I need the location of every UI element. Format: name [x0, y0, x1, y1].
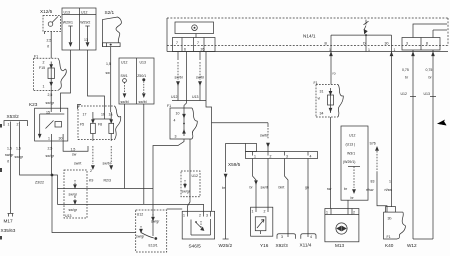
- wire Z50/1 down: [143, 104, 145, 204]
- svg-text:U13: U13: [424, 92, 430, 96]
- svg-text:bl/rt: bl/rt: [279, 186, 285, 190]
- connector X92/3: [277, 234, 296, 239]
- wire U12 chain to W12: [401, 50, 417, 239]
- svg-text:2: 2: [90, 169, 92, 173]
- svg-text:U13: U13: [65, 214, 71, 218]
- bracket X59/5 to W25/2: [226, 144, 246, 173]
- svg-text:2: 2: [17, 123, 19, 127]
- svg-text:K9: K9: [89, 179, 93, 183]
- wire switch to E13/1 net: [153, 139, 184, 236]
- svg-text:U12: U12: [81, 11, 87, 15]
- svg-text:R2/3: R2/3: [104, 179, 111, 183]
- svg-text:1: 1: [326, 211, 328, 215]
- wire pin8 stub: [432, 30, 434, 38]
- wire X59/5 pin2 to Y16: [261, 159, 269, 208]
- svg-text:2: 2: [353, 211, 355, 215]
- svg-text:sw/gr: sw/gr: [69, 208, 78, 212]
- svg-text:sw: sw: [72, 153, 77, 157]
- relay K40: [384, 207, 406, 239]
- svg-text:rt/sw: rt/sw: [385, 188, 393, 192]
- svg-text:0,75: 0,75: [402, 68, 409, 72]
- svg-text:X92/3: X92/3: [276, 243, 289, 248]
- svg-text:1,5: 1,5: [71, 148, 76, 152]
- svg-text:X12/5: X12/5: [40, 9, 53, 14]
- switch S46/5: [182, 211, 214, 239]
- wire X53/2-1 to M17: [10, 126, 12, 213]
- svg-text:sw/gr: sw/gr: [136, 235, 145, 239]
- svg-text:U13: U13: [192, 95, 198, 99]
- svg-text:34: 34: [320, 112, 324, 116]
- svg-text:1: 1: [252, 210, 254, 214]
- svg-text:S2/1: S2/1: [105, 10, 115, 15]
- svg-text:Z3/22: Z3/22: [35, 181, 44, 185]
- svg-text:17: 17: [83, 113, 87, 117]
- svg-text:2,5: 2,5: [47, 39, 52, 43]
- svg-text:31: 31: [320, 90, 324, 94]
- svg-text:1: 1: [389, 180, 391, 184]
- svg-text:rt/sw: rt/sw: [366, 188, 374, 192]
- wire W29/2 to fuse box: [88, 50, 105, 106]
- svg-text:sw: sw: [106, 71, 111, 75]
- wire K23 to Z3/22 junction: [50, 141, 52, 175]
- svg-text:1a: 1a: [109, 113, 113, 117]
- svg-text:U12: U12: [192, 174, 198, 178]
- svg-text:2: 2: [264, 210, 266, 214]
- edge marks: [0, 124, 2, 128]
- svg-text:vi: vi: [318, 97, 321, 101]
- connector X11/4: [301, 234, 316, 239]
- connector X12/5: [43, 16, 61, 35]
- svg-text:X11/4: X11/4: [300, 243, 312, 248]
- svg-text:U13: U13: [140, 61, 146, 65]
- svg-text:26: 26: [201, 48, 205, 52]
- svg-text:30: 30: [59, 137, 63, 141]
- wire F1 to K23: [50, 87, 52, 109]
- wire Z3/22 down to E13/1: [52, 175, 136, 233]
- svg-text:U12: U12: [121, 61, 127, 65]
- svg-text:6: 6: [184, 48, 186, 52]
- svg-text:sw/bl: sw/bl: [139, 100, 147, 104]
- wire pin3 up: [413, 24, 447, 38]
- wire M13 br to W3/1: [347, 200, 349, 208]
- svg-text:(U13 ): (U13 ): [346, 143, 356, 147]
- svg-text:sw/gr: sw/gr: [69, 193, 78, 197]
- coupler U12 box E13/1: [136, 210, 167, 252]
- svg-text:F1: F1: [387, 235, 391, 239]
- coupler U12 label box (above S46/5): [181, 171, 200, 197]
- dashed box N14/1: [167, 18, 448, 52]
- svg-text:4: 4: [174, 119, 176, 123]
- motor M17: [8, 214, 14, 217]
- svg-text:sw/bl: sw/bl: [121, 100, 129, 104]
- ground ref box U12 (U13) W3/1 (W29/1): [341, 126, 368, 200]
- wire X59/5 pin3 to X92/3: [279, 159, 289, 234]
- wire horiz 122.8: [212, 122, 269, 124]
- ground wire W25/2: [222, 174, 229, 239]
- svg-text:F8: F8: [98, 123, 102, 127]
- node bus U12/U13: [171, 95, 206, 101]
- svg-text:1: 1: [394, 48, 396, 52]
- coupler U13 sleeve: [64, 170, 87, 218]
- svg-text:U12: U12: [349, 134, 355, 138]
- wire to X59/5 pin2 dashed: [260, 123, 269, 152]
- wire switch to S46/5 pin1: [188, 139, 191, 211]
- ground W12: [413, 238, 433, 240]
- wire S2/1 to fuse box: [110, 47, 112, 112]
- svg-text:Z50/1: Z50/1: [137, 74, 146, 78]
- wire U13 chain to W12: [424, 50, 437, 239]
- svg-text:F1: F1: [167, 104, 171, 108]
- svg-text:4: 4: [310, 235, 312, 239]
- svg-text:Y16: Y16: [260, 243, 269, 248]
- svg-text:sw/bl: sw/bl: [103, 162, 111, 166]
- svg-text:1: 1: [368, 48, 370, 52]
- svg-text:F5: F5: [80, 123, 84, 127]
- svg-text:sw/rt: sw/rt: [74, 162, 81, 166]
- svg-text:U12: U12: [401, 92, 407, 96]
- svg-text:2,5: 2,5: [48, 147, 53, 151]
- svg-text:E13/1: E13/1: [149, 244, 158, 248]
- svg-text:X59/5: X59/5: [228, 162, 241, 167]
- svg-text:U12: U12: [171, 95, 177, 99]
- svg-text:W25/2: W25/2: [219, 243, 233, 248]
- svg-text:sw/bl: sw/bl: [175, 76, 183, 80]
- svg-text:2: 2: [199, 214, 201, 218]
- svg-text:W29/1: W29/1: [63, 21, 73, 25]
- wire pin6 solid: [184, 52, 187, 108]
- svg-text:1,5: 1,5: [16, 147, 21, 151]
- pin arrows under N14/1: [412, 52, 415, 55]
- svg-text:sw: sw: [327, 187, 332, 191]
- svg-text:3: 3: [175, 135, 177, 139]
- svg-text:sw/gr: sw/gr: [151, 220, 160, 224]
- wire X12/5 to F1: [50, 32, 52, 59]
- svg-text:1: 1: [183, 214, 185, 218]
- ref arrow S76: [366, 142, 387, 213]
- N14/1 transistor symbol: [364, 20, 369, 52]
- svg-text:4: 4: [310, 155, 312, 159]
- svg-text:U13: U13: [64, 11, 70, 15]
- page arrow right: [437, 120, 447, 126]
- svg-text:8: 8: [426, 42, 428, 46]
- wire X53/2-2 to Z3/22: [20, 126, 52, 175]
- svg-text:S46/5: S46/5: [189, 244, 202, 249]
- svg-text:W3/1: W3/1: [347, 152, 355, 156]
- motor M13: [325, 209, 359, 242]
- svg-text:2: 2: [43, 61, 45, 65]
- svg-text:1: 1: [48, 137, 50, 141]
- ground symbol W29/1: [68, 26, 72, 46]
- N14/1 relay symbol: [175, 22, 214, 38]
- wire S9/1 down: [124, 104, 126, 189]
- svg-text:1: 1: [254, 155, 256, 159]
- svg-text:K40: K40: [385, 243, 394, 248]
- svg-text:1,5: 1,5: [106, 62, 111, 66]
- svg-text:sw/gr: sw/gr: [46, 101, 55, 105]
- svg-text:U12: U12: [137, 213, 143, 217]
- wire N14/1 B to F1: [330, 52, 332, 85]
- svg-text:83: 83: [371, 180, 375, 184]
- wire X59/5 pin4 to X11/4: [305, 159, 309, 234]
- ground box U13/U12 W29/1 W29/2: [62, 8, 96, 50]
- N14/1 internal line right: [331, 35, 392, 51]
- svg-text:sw/bl: sw/bl: [196, 76, 204, 80]
- svg-text:F15: F15: [39, 66, 45, 70]
- svg-text:1: 1: [329, 48, 331, 52]
- fuse box F1 right: [314, 81, 344, 117]
- wire pin7 dashed sw/bl: [175, 52, 183, 101]
- svg-text:2: 2: [270, 155, 272, 159]
- svg-text:X35/63: X35/63: [1, 228, 16, 233]
- svg-text:3b: 3b: [388, 217, 392, 221]
- svg-text:gn: gn: [305, 186, 309, 190]
- svg-text:13: 13: [84, 38, 88, 42]
- svg-text:S9/1: S9/1: [121, 74, 128, 78]
- svg-text:2,5: 2,5: [48, 93, 53, 97]
- svg-text:X53/2: X53/2: [7, 114, 20, 119]
- wire K23 pin30 to fuse box: [63, 141, 88, 151]
- wire pin7b dashed sw/bl: [196, 52, 204, 101]
- svg-text:1: 1: [8, 123, 10, 127]
- svg-text:K23: K23: [29, 102, 38, 107]
- svg-text:sw/gr: sw/gr: [46, 154, 55, 158]
- svg-text:sw/gr: sw/gr: [182, 190, 191, 194]
- svg-text:sw/bl: sw/bl: [260, 134, 268, 138]
- wire pin26 solid: [206, 52, 212, 211]
- node Z3/22: [51, 174, 54, 177]
- svg-text:ro: ro: [333, 72, 336, 76]
- svg-text:3: 3: [281, 235, 283, 239]
- svg-text:3: 3: [286, 155, 288, 159]
- svg-text:7: 7: [176, 41, 178, 45]
- ground symbol W29/2: [84, 26, 90, 46]
- svg-text:W29/2: W29/2: [80, 21, 90, 25]
- wire bus sw/gr upper: [57, 188, 153, 190]
- svg-text:M17: M17: [4, 219, 14, 224]
- fuse box F5/F8: [78, 105, 121, 142]
- wire Z3/22 jog to bus: [52, 175, 57, 204]
- svg-text:sw/gr: sw/gr: [5, 153, 14, 157]
- wire bus sw/gr lower: [57, 204, 203, 211]
- svg-text:N14/1: N14/1: [303, 34, 316, 39]
- N14/1 pin row left: [173, 38, 216, 52]
- wire E13/1 box to S46/5: [167, 208, 183, 210]
- svg-text:1,5: 1,5: [7, 147, 12, 151]
- wire W29/1 to K23: [61, 50, 71, 108]
- svg-text:(W29/1): (W29/1): [343, 160, 355, 164]
- svg-text:rt: rt: [47, 45, 49, 49]
- box U12/U13 S9/1 Z50/1: [119, 58, 154, 104]
- wire N14/1 30 to K40: [385, 52, 393, 207]
- svg-text:S76: S76: [370, 142, 376, 146]
- wire X59/5 pin1 to Y16: [250, 159, 258, 208]
- svg-text:M13: M13: [335, 243, 345, 248]
- svg-text:0,75: 0,75: [426, 68, 433, 72]
- svg-text:7: 7: [197, 41, 199, 45]
- svg-text:10: 10: [176, 112, 180, 116]
- svg-text:sw/rt: sw/rt: [261, 186, 268, 190]
- svg-text:30: 30: [385, 42, 389, 46]
- wire to R2/3: [103, 146, 113, 183]
- N14/1 pin box far right: [402, 38, 440, 51]
- svg-text:sw/gr: sw/gr: [15, 155, 24, 159]
- svg-text:rt: rt: [7, 160, 9, 164]
- connector strip X59/5: [246, 144, 318, 159]
- svg-text:W12: W12: [407, 243, 417, 248]
- svg-text:1: 1: [43, 85, 45, 89]
- svg-text:3: 3: [406, 42, 408, 46]
- valve Y16: [251, 207, 273, 236]
- wire to K9: [74, 146, 94, 183]
- svg-text:3: 3: [206, 214, 208, 218]
- wire F1 to M13: [330, 117, 332, 209]
